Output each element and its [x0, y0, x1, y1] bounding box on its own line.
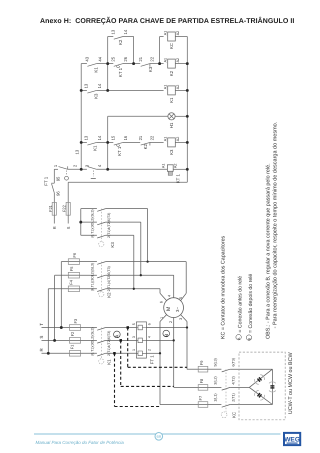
svg-text:A1: A1: [164, 137, 168, 142]
wire: [67, 215, 69, 223]
svg-text:6(T3): 6(T3): [232, 358, 236, 367]
fuse F3: [69, 327, 80, 329]
svg-text:K1: K1: [93, 145, 98, 151]
footer page badge: [155, 433, 163, 441]
capacitor line bottom: [160, 404, 198, 406]
K3 line 1: [81, 208, 97, 210]
svg-text:Anexo H: CORREÇÃO PARA CHAVE: Anexo H: CORREÇÃO PARA CHAVE DE PARTIDA …: [40, 16, 294, 25]
FT1 heater element: [136, 351, 146, 356]
motor lead 2: [173, 318, 175, 388]
stop button head: [65, 176, 69, 180]
marker circle A: [114, 331, 121, 338]
wire: [150, 63, 160, 65]
svg-text:T: T: [39, 323, 44, 326]
capacitor line mid: [174, 386, 199, 388]
K2 linkage circle: [99, 292, 104, 297]
contact K3 main L3: [97, 209, 105, 212]
contact KT1 25-26 timed NO: [114, 64, 123, 67]
svg-text:S: S: [66, 226, 71, 229]
junction: [186, 115, 189, 118]
svg-text:(6.T1)(3OL2)(5L3): (6.T1)(3OL2)(5L3): [90, 209, 94, 237]
svg-text:3: 3: [84, 164, 89, 167]
K2 branch line 1: [61, 261, 68, 263]
junction: [53, 339, 56, 342]
junction: [132, 62, 135, 65]
KC linkage circle: [221, 412, 227, 418]
wire: [68, 168, 87, 170]
wire: [80, 288, 97, 290]
wire: [81, 352, 97, 354]
wire bottom return: [68, 181, 187, 183]
fuse F5: [68, 274, 79, 276]
junction: [158, 62, 161, 65]
svg-text:13: 13: [84, 135, 89, 140]
lamp H1: [168, 113, 175, 120]
svg-text:KT 1: KT 1: [118, 67, 123, 77]
svg-text:3: 3: [179, 318, 183, 320]
svg-text:A2: A2: [176, 58, 180, 63]
contact K2 main L1: [97, 289, 105, 292]
svg-text:2(T1)4(T2)6(T3): 2(T1)4(T2)6(T3): [107, 213, 111, 238]
svg-text:F22: F22: [62, 204, 67, 212]
svg-text:KC = Contator de manobra dos C: KC = Contator de manobra dos Capacitores: [221, 235, 227, 339]
svg-text:(6.T1)(3OL2)(5L3): (6.T1)(3OL2)(5L3): [90, 327, 94, 355]
svg-text:5: 5: [132, 323, 136, 325]
wire: [106, 234, 134, 236]
svg-text:OBS.: - Para a conexão B, regu: OBS.: - Para a conexão B, regular a nova…: [266, 163, 272, 339]
contact K2 main L2: [97, 275, 105, 278]
svg-text:A1: A1: [164, 85, 168, 90]
legend A: [236, 335, 241, 340]
junction: [60, 326, 63, 329]
wire: [230, 368, 272, 370]
wire: [208, 368, 222, 370]
svg-text:KT 1: KT 1: [175, 174, 180, 184]
contact KC L2: [222, 387, 230, 390]
wire: left seal rail: [80, 64, 82, 170]
wire riser: [140, 222, 142, 275]
wire: [123, 63, 140, 65]
svg-text:69: 69: [156, 434, 161, 439]
timer coil KT1: [167, 165, 173, 172]
svg-text:A2: A2: [176, 85, 180, 90]
svg-text:5: 5: [179, 297, 183, 299]
svg-text:F2: F2: [70, 331, 75, 336]
wire rung 3: [81, 89, 87, 91]
coil KC: [168, 32, 176, 41]
svg-text:4: 4: [148, 336, 152, 338]
wire: [146, 327, 187, 329]
wire: [97, 89, 164, 91]
capacitor C2: [257, 393, 259, 396]
svg-text:A2: A2: [174, 164, 178, 169]
svg-text:14: 14: [97, 135, 102, 140]
wire KC branch riser: [159, 37, 161, 64]
coil K1: [168, 86, 176, 95]
capacitor C1: [257, 379, 259, 382]
wire: [53, 193, 55, 203]
svg-text:(6.T1)(3OL2)(5L3): (6.T1)(3OL2)(5L3): [90, 263, 94, 291]
junction: [159, 352, 161, 354]
K3 line 2: [81, 221, 97, 223]
K1 linkage circle: [99, 359, 104, 364]
svg-text:95: 95: [55, 176, 60, 181]
capacitor line top: [187, 368, 198, 370]
contact K1 43-44 NO: [87, 64, 96, 67]
legend B: [246, 335, 251, 340]
svg-text:4: 4: [97, 164, 102, 167]
FT1 heater element: [136, 325, 146, 330]
wire branch up left: [107, 37, 109, 64]
junction: [186, 168, 189, 171]
wire: [146, 339, 173, 341]
junction: [80, 168, 83, 171]
svg-text:14: 14: [97, 83, 102, 88]
svg-text:2(T1)4(T2)6(T3): 2(T1)4(T2)6(T3): [107, 266, 111, 291]
contact K1 13-14 NO: [87, 142, 96, 145]
fuse F2: [69, 339, 80, 341]
svg-text:1: 1: [160, 317, 164, 319]
svg-text:5(L3): 5(L3): [213, 358, 217, 366]
wire: [81, 339, 97, 341]
control feed phase R: [53, 169, 55, 183]
contact K1 main L1: [97, 353, 105, 356]
svg-text:21: 21: [138, 135, 143, 140]
wire: [106, 288, 160, 290]
capacitor delta wiring: [271, 369, 273, 404]
junction: [186, 326, 188, 328]
svg-text:K3: K3: [169, 149, 174, 155]
coil K3: [168, 138, 176, 147]
fuse F9: [198, 368, 208, 370]
svg-text:R: R: [52, 226, 57, 229]
K1 linkage: [100, 328, 102, 359]
WEG logo: [284, 433, 300, 445]
tap dot A on T: [127, 326, 130, 329]
fuse F7: [198, 404, 208, 406]
fuse F4: [68, 288, 79, 290]
wire rung 2: [81, 63, 87, 65]
KC linkage: [225, 369, 227, 412]
wire: [81, 327, 97, 329]
junction: [106, 62, 109, 65]
wire KC branch: [160, 36, 164, 38]
coil K2: [168, 59, 176, 68]
svg-text:K2: K2: [169, 70, 174, 76]
svg-text:K3: K3: [110, 242, 115, 248]
svg-text:- Para reenergização do capaci: - Para reenergização do capacitor, respe…: [272, 121, 279, 328]
junction: [186, 62, 189, 65]
junction: [133, 288, 135, 290]
svg-text:A1: A1: [161, 164, 165, 169]
contact K1 main L2: [97, 340, 105, 343]
junction: [173, 339, 175, 341]
svg-text:A2: A2: [176, 137, 180, 142]
wire: [106, 261, 187, 263]
svg-text:= Conexão antes do relé: = Conexão antes do relé: [237, 276, 243, 333]
svg-text:2: 2: [73, 164, 78, 167]
wire: [123, 36, 134, 38]
junction: [80, 141, 83, 144]
svg-text:16: 16: [123, 135, 128, 140]
svg-text:6: 6: [148, 323, 152, 325]
fuse F22: [67, 202, 69, 215]
svg-text:H1: H1: [169, 122, 174, 128]
svg-text:F5: F5: [69, 266, 74, 271]
svg-text:15: 15: [111, 135, 116, 140]
stop button stem: [65, 171, 67, 176]
svg-text:A2: A2: [176, 31, 180, 36]
svg-text:44: 44: [98, 56, 103, 61]
wire: [80, 274, 97, 276]
svg-text:A: A: [237, 337, 241, 340]
wire: [175, 115, 187, 117]
svg-text:F1: F1: [69, 344, 74, 349]
wire: [106, 339, 137, 341]
svg-text:6: 6: [160, 301, 164, 303]
K3 linkage circle: [99, 242, 104, 247]
motor M 3~: [164, 298, 184, 318]
marker circle B: [163, 330, 170, 337]
wire lamp branch: [108, 115, 168, 117]
svg-text:K3: K3: [93, 93, 98, 99]
dashed link from T: [127, 328, 129, 368]
svg-text:K2: K2: [118, 39, 123, 45]
fuse F1: [69, 352, 80, 354]
junction: [140, 274, 142, 276]
svg-text:43: 43: [84, 56, 89, 61]
dashed link from S: [120, 340, 122, 386]
wire: right return rail: [186, 37, 188, 183]
junction: [146, 260, 148, 262]
wire: [175, 89, 187, 91]
svg-text:3~: 3~: [175, 307, 180, 312]
svg-text:13: 13: [111, 29, 116, 34]
svg-text:KT 1: KT 1: [117, 146, 122, 156]
svg-text:1: 1: [53, 164, 58, 167]
junction: [106, 141, 109, 144]
contact K2 13-14 NO: [114, 37, 123, 40]
tap riser R: [47, 289, 49, 354]
svg-text:M: M: [166, 307, 172, 311]
svg-text:25: 25: [111, 56, 116, 61]
FT1 heater element: [136, 338, 146, 343]
dashed link from R: [114, 353, 116, 406]
wire branch up right: [133, 37, 135, 64]
svg-text:K3: K3: [148, 66, 153, 72]
svg-text:96: 96: [55, 191, 60, 196]
wire: [150, 141, 164, 143]
wire: [97, 168, 168, 170]
wire: [173, 168, 187, 170]
motor lead 5: [185, 262, 187, 294]
contact KC L1: [222, 405, 230, 408]
wire rung 5: [81, 141, 87, 143]
svg-text:F6: F6: [72, 252, 77, 257]
dashed link: [128, 366, 187, 368]
motor lead 1: [160, 315, 167, 322]
dashed link: [115, 406, 161, 408]
tap riser T: [60, 262, 62, 328]
svg-text:F3: F3: [73, 318, 78, 323]
contact KT1 15-16 timed NC: [114, 142, 123, 145]
pushbutton S0 stop NC: [59, 167, 68, 170]
wire: [106, 274, 174, 276]
junction: [47, 352, 50, 355]
svg-text:13: 13: [75, 149, 80, 154]
motor lead 3: [181, 315, 187, 322]
capacitor unit box UCW: [239, 352, 285, 420]
contact K3 main L1: [97, 235, 105, 238]
tap riser S: [54, 275, 56, 340]
svg-text:KC: KC: [169, 43, 174, 49]
svg-text:F8: F8: [199, 378, 204, 383]
fuse F8: [198, 386, 208, 388]
overload relay FT1 box: [136, 322, 146, 358]
svg-text:4: 4: [167, 295, 171, 297]
svg-text:22: 22: [150, 135, 155, 140]
svg-text:13: 13: [84, 83, 89, 88]
svg-text:Manual Para Correção do Fator: Manual Para Correção do Fator de Potênci…: [36, 440, 125, 445]
svg-text:= Conexão depois do relé: = Conexão depois do relé: [248, 274, 254, 333]
contact K1 main L3: [97, 328, 105, 331]
bus line R: [42, 352, 70, 354]
K3 star bar: [80, 209, 82, 236]
svg-text:S: S: [39, 336, 44, 339]
junction: [106, 89, 109, 92]
dashed link: [121, 385, 174, 387]
wire: [106, 352, 137, 354]
svg-text:K2: K2: [106, 292, 111, 298]
svg-text:1(L1): 1(L1): [213, 393, 217, 401]
svg-text:K1: K1: [93, 67, 98, 73]
wire riser: [147, 209, 149, 262]
tap dot A on R: [113, 352, 116, 355]
K3 line 3: [81, 234, 97, 236]
wire: [123, 141, 140, 143]
wire: [230, 386, 249, 388]
contact KC L3: [222, 369, 230, 372]
svg-text:F9: F9: [199, 360, 204, 365]
junction: [80, 89, 83, 92]
contact K2 21-22 NC: [141, 142, 150, 145]
wire: mid rail upper segment: [107, 64, 109, 91]
control feed phase S: [67, 182, 69, 202]
fuse F21: [53, 202, 55, 215]
wire: [230, 404, 272, 406]
wire: [175, 141, 187, 143]
svg-text:26: 26: [123, 56, 128, 61]
fuse F6: [68, 261, 79, 263]
wire: [208, 404, 222, 406]
svg-text:2(T1): 2(T1): [232, 393, 236, 402]
svg-text:A1: A1: [164, 31, 168, 36]
contact K3 21-22 NC: [141, 64, 150, 67]
svg-text:22: 22: [150, 56, 155, 61]
motor lead 4: [173, 275, 175, 298]
svg-text:K2: K2: [143, 143, 148, 149]
wire: [97, 63, 114, 65]
svg-text:A1: A1: [164, 58, 168, 63]
svg-text:14: 14: [123, 29, 128, 34]
svg-text:1: 1: [132, 349, 136, 351]
motor lead 6: [159, 289, 161, 294]
start button stem: [92, 171, 94, 177]
wire: [160, 63, 164, 65]
junction: [186, 141, 189, 144]
pushbutton S1 start NO: [87, 167, 96, 170]
svg-text:F7: F7: [198, 395, 203, 400]
wire riser: [133, 235, 135, 288]
wire: [53, 215, 55, 223]
junction: [79, 221, 82, 224]
junction: [106, 168, 109, 171]
svg-text:2(T1)4(T2)6(T3): 2(T1)4(T2)6(T3): [107, 331, 111, 356]
svg-text:R: R: [39, 348, 44, 352]
junction: [186, 89, 189, 92]
footer rule: [34, 433, 281, 435]
svg-text:B: B: [164, 334, 170, 337]
wire: [175, 36, 187, 38]
wire rung 6: [54, 168, 58, 170]
svg-text:F4: F4: [69, 279, 74, 284]
contact K2 main L3: [97, 262, 105, 265]
wire: [106, 221, 141, 223]
wire: mid rail lower segment: [107, 116, 109, 169]
svg-text:K1: K1: [106, 359, 111, 365]
wire: [146, 352, 160, 354]
contact K3 main L2: [97, 222, 105, 225]
wire parallel branch: [108, 36, 114, 38]
tap dot A on S: [120, 339, 123, 342]
K2 linkage: [100, 262, 102, 292]
wire: [208, 386, 222, 388]
contact K3 13-14 NO: [87, 90, 96, 93]
svg-text:2: 2: [169, 321, 173, 323]
wire: [175, 63, 187, 65]
svg-text:21: 21: [138, 56, 143, 61]
svg-text:3(L2): 3(L2): [213, 376, 217, 384]
svg-text:FT 1: FT 1: [44, 176, 49, 186]
wire: [97, 141, 114, 143]
svg-text:K1: K1: [169, 97, 174, 103]
svg-text:UCW-T ou MCW ou BCW: UCW-T ou MCW ou BCW: [288, 351, 294, 414]
svg-text:B: B: [248, 337, 252, 340]
start button head: [91, 178, 96, 180]
svg-text:3: 3: [132, 336, 136, 338]
K2 branch line 2: [55, 274, 69, 276]
K3 linkage: [100, 209, 102, 242]
svg-text:KC: KC: [232, 412, 237, 418]
capacitor C3: [270, 385, 274, 387]
svg-text:2: 2: [148, 349, 152, 351]
wire: [106, 327, 137, 329]
wire: [80, 261, 97, 263]
bus line S: [42, 339, 70, 341]
wire: [106, 208, 148, 210]
contact FT1 95-96 NC: [52, 184, 55, 193]
svg-text:FT 1: FT 1: [150, 355, 155, 365]
svg-text:4(T2): 4(T2): [232, 376, 236, 385]
bus line T: [42, 327, 70, 329]
K2 branch line 3: [48, 288, 68, 290]
svg-text:F21: F21: [48, 204, 53, 212]
